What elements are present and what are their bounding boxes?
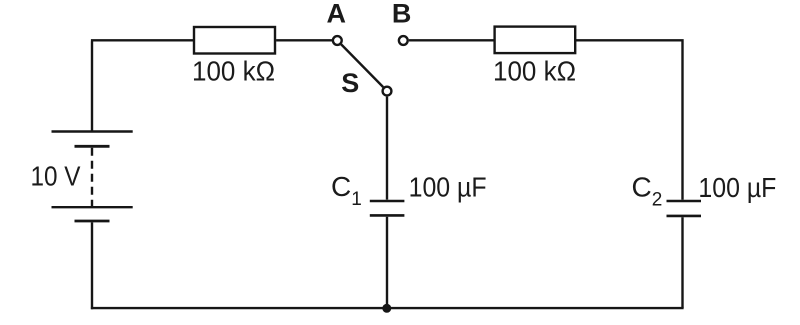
svg-text:A: A	[327, 0, 347, 29]
wire: C2 to bottom-right corner	[681, 217, 683, 308]
wire: switch pole down to C1	[386, 97, 388, 200]
svg-text:C2: C2	[632, 172, 663, 211]
battery B1 negative short plate (bottom cell)	[75, 220, 110, 223]
resistor R1	[194, 27, 275, 54]
wire: bottom horizontal	[91, 307, 684, 309]
battery B1 negative short plate (top cell)	[75, 145, 110, 148]
capacitor C1	[370, 201, 405, 215]
svg-text:B: B	[392, 0, 412, 29]
wire: left vertical, top corner to battery top plate	[91, 40, 194, 131]
svg-text:S: S	[341, 68, 359, 98]
wire: battery bottom to bottom-left corner	[91, 222, 93, 309]
battery B1 positive long plate (top cell)	[52, 130, 133, 132]
battery omitted-cells dashed link	[91, 148, 93, 206]
wire: C1 to bottom junction	[386, 217, 388, 308]
switch S blade	[341, 44, 383, 87]
switch terminal A contact	[333, 36, 342, 45]
svg-text:100 kΩ: 100 kΩ	[493, 56, 576, 87]
svg-text:100 µF: 100 µF	[409, 172, 487, 203]
resistor R2	[495, 27, 576, 53]
wire: R1 to switch terminal A	[276, 39, 332, 41]
switch terminal B contact	[399, 36, 408, 45]
svg-text:C1: C1	[331, 171, 362, 210]
svg-text:100 µF: 100 µF	[698, 172, 776, 203]
capacitor C2	[667, 201, 702, 216]
svg-text:10 V: 10 V	[31, 161, 81, 192]
junction node dot	[382, 304, 391, 313]
wire: R2 to top-right corner down to C2	[575, 40, 682, 200]
battery B1 positive long plate (bottom cell)	[52, 206, 133, 208]
switch S pole contact	[383, 87, 392, 96]
wire: terminal B to R2	[409, 39, 495, 41]
svg-text:100 kΩ: 100 kΩ	[192, 56, 275, 87]
